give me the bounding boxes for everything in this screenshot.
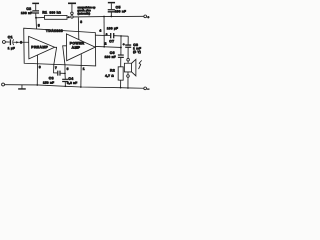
svg-text:C1: C1 xyxy=(8,35,13,39)
svg-text:8: 8 xyxy=(20,40,22,44)
pin 3 wire xyxy=(77,17,80,40)
capacitor C2 xyxy=(21,3,39,17)
wire xyxy=(127,77,129,88)
wire input to pin 8 xyxy=(13,41,23,43)
capacitor C4 xyxy=(62,77,77,87)
wire boucherot branch xyxy=(120,36,122,55)
svg-text:100 nF: 100 nF xyxy=(105,55,116,59)
wire C3 to pin6 branch xyxy=(60,72,65,74)
wire xyxy=(36,16,45,18)
wire pin 6 xyxy=(63,46,67,79)
capacitor C1 xyxy=(8,35,15,50)
capacitor C6 xyxy=(105,51,124,67)
wire inside to preamp xyxy=(24,41,29,43)
wire xyxy=(127,48,129,59)
svg-text:150 nF: 150 nF xyxy=(43,81,54,85)
terminal +supply xyxy=(144,15,150,19)
svg-text:TDA1020: TDA1020 xyxy=(46,29,63,33)
svg-text:5: 5 xyxy=(38,24,40,28)
svg-text:1: 1 xyxy=(83,67,85,71)
svg-text:+: + xyxy=(147,15,149,19)
wire speaker branch xyxy=(127,36,129,45)
wire xyxy=(5,41,9,43)
ground xyxy=(18,85,26,89)
resistor R1 xyxy=(42,10,67,19)
node B (rail/R1 junction dot) xyxy=(68,16,70,18)
svg-text:(autoradio): (autoradio) xyxy=(78,11,91,15)
capacitor C3 xyxy=(43,71,60,85)
pin 1 wire xyxy=(80,54,82,87)
svg-text:100 nF: 100 nF xyxy=(115,9,126,13)
terminal input xyxy=(2,40,5,43)
svg-text:4: 4 xyxy=(99,29,101,33)
terminal -supply xyxy=(144,87,150,91)
node supply/C5 junction xyxy=(110,16,112,18)
svg-text:R1: R1 xyxy=(42,10,47,14)
resistor R2 xyxy=(105,67,123,88)
svg-text:PREAMP: PREAMP xyxy=(31,45,48,49)
pin 9 wire xyxy=(36,55,38,85)
svg-text:3,3 nF: 3,3 nF xyxy=(67,81,77,85)
svg-text:7: 7 xyxy=(55,66,57,70)
capacitor C8 (output) xyxy=(123,42,142,53)
svg-text:C7: C7 xyxy=(109,39,114,43)
svg-text:R2: R2 xyxy=(110,69,115,73)
svg-text:–: – xyxy=(147,87,149,91)
terminal speaker bottom xyxy=(127,75,130,78)
pin 2 output wire xyxy=(95,46,121,47)
connector J1 (supply plug) xyxy=(68,3,96,18)
svg-text:330 kΩ: 330 kΩ xyxy=(50,10,62,14)
terminal speaker top xyxy=(127,58,130,61)
wire xyxy=(127,61,129,63)
capacitor C5 xyxy=(108,3,126,17)
svg-text:9: 9 xyxy=(39,65,41,69)
op-amp preamp triangle xyxy=(29,36,55,59)
svg-text:+: + xyxy=(123,42,125,46)
wire (rail to output, vertical) xyxy=(103,17,105,47)
pin 4 wire xyxy=(96,34,111,36)
svg-text:6: 6 xyxy=(67,67,69,71)
svg-text:3: 3 xyxy=(80,20,82,24)
junction dots on ground rail xyxy=(36,84,38,86)
arrow on input wire xyxy=(16,41,19,43)
wire preamp out to pin 7 xyxy=(54,47,58,73)
svg-text:100 µF: 100 µF xyxy=(107,26,118,30)
svg-text:(6 V): (6 V) xyxy=(133,50,141,54)
svg-text:+: + xyxy=(106,32,108,36)
loudspeaker LS1 xyxy=(124,59,141,76)
svg-text:AMP: AMP xyxy=(72,46,81,50)
op-amp power amp triangle xyxy=(66,34,95,61)
capacitor C7 (bootstrap) xyxy=(106,26,119,43)
svg-text:1 µF: 1 µF xyxy=(8,46,15,50)
pin 5 wire xyxy=(35,18,38,29)
svg-text:4,7 Ω: 4,7 Ω xyxy=(105,74,114,78)
svg-text:100 nF: 100 nF xyxy=(21,11,32,15)
IC box TDA1020 xyxy=(24,28,96,66)
svg-text:2: 2 xyxy=(105,42,107,46)
wire supply rail xyxy=(73,15,144,18)
wire C7 to output node xyxy=(114,35,128,37)
node A (C2/R1/pin5 junction) xyxy=(35,17,37,19)
wire xyxy=(67,16,69,18)
wire ground rail xyxy=(5,85,144,89)
terminal ground left xyxy=(2,83,5,86)
wire xyxy=(127,72,129,75)
